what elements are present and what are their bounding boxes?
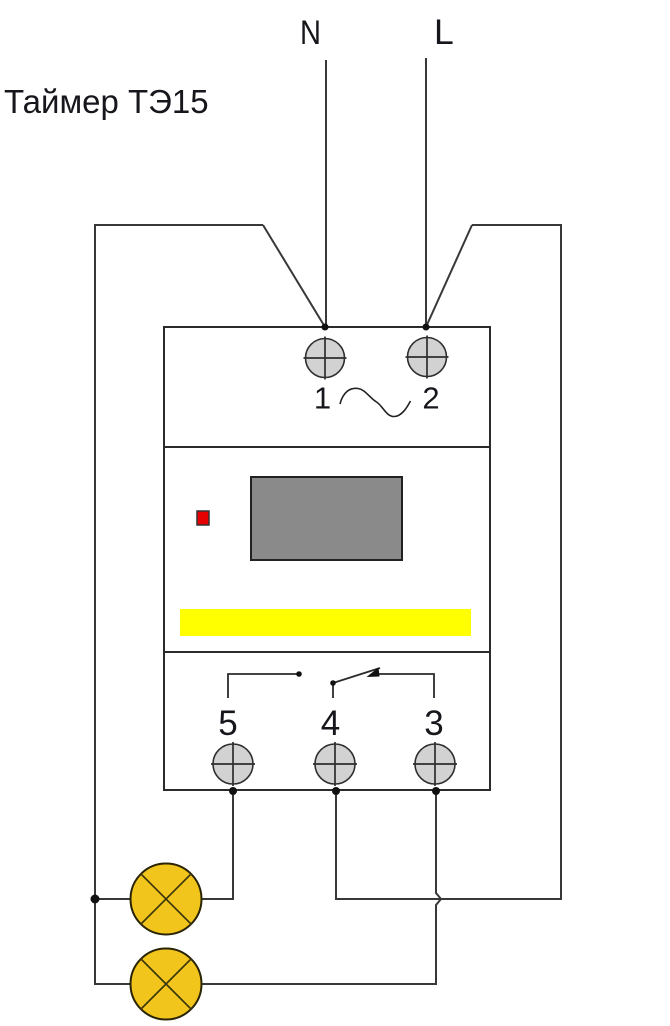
svg-text:Таймер ТЭ15: Таймер ТЭ15 — [4, 83, 209, 120]
svg-text:1: 1 — [314, 381, 331, 416]
svg-text:5: 5 — [218, 704, 237, 743]
svg-text:N: N — [300, 14, 321, 52]
svg-text:L: L — [434, 12, 454, 52]
svg-text:2: 2 — [422, 381, 439, 416]
svg-text:3: 3 — [424, 704, 443, 743]
svg-text:4: 4 — [321, 704, 340, 743]
